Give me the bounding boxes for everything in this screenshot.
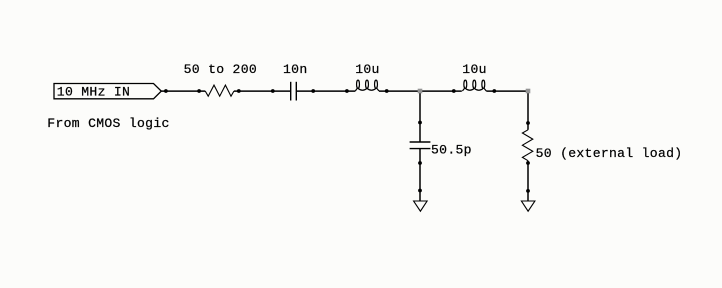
node dot tag output (164, 89, 168, 93)
svg-text:50.5p: 50.5p (431, 143, 472, 158)
node dot L1 pin2 (385, 89, 389, 93)
junction node right (526, 89, 531, 94)
ground symbol right (521, 201, 535, 211)
junction node middle (418, 89, 423, 94)
wire R2 to ground (527, 161, 529, 201)
wire L2 to right node (486, 90, 528, 92)
wire C1 to L1 (296, 90, 355, 92)
node dot C2 pin2 (418, 161, 422, 165)
svg-text:10u: 10u (355, 62, 379, 77)
inductor L2 10u (462, 80, 486, 91)
resistor R1 50 to 200 (205, 85, 234, 96)
node dot C1 pin2 (311, 89, 315, 93)
wire C2 to ground (419, 149, 421, 201)
inductor L1 10u (355, 80, 379, 91)
wire node to R2 (527, 91, 529, 130)
node dot before middle ground (418, 189, 422, 193)
svg-text:50 to 200: 50 to 200 (184, 62, 257, 77)
node dot L2 pin1 (452, 89, 456, 93)
svg-text:50 (external load): 50 (external load) (536, 146, 683, 161)
input port tag 10 MHz IN (54, 84, 161, 99)
node dot C1 pin1 (271, 89, 275, 93)
ground symbol middle (414, 201, 428, 211)
svg-text:10 MHz IN: 10 MHz IN (57, 85, 130, 100)
wire L1 to L2 through node (379, 90, 462, 92)
node dot L1 pin1 (345, 89, 349, 93)
svg-text:From CMOS logic: From CMOS logic (47, 116, 169, 131)
svg-text:10u: 10u (462, 62, 486, 77)
svg-text:10n: 10n (283, 62, 307, 77)
node dot C2 pin1 (418, 121, 422, 125)
capacitor C1 10n (290, 82, 292, 101)
node dot R2 pin2 (526, 161, 530, 165)
node dot R2 pin1 (526, 121, 530, 125)
node dot R1 pin2 (237, 89, 241, 93)
node dot before right ground (526, 189, 530, 193)
wire R1 to C1 (234, 90, 290, 92)
wire tag to R1 (161, 90, 205, 92)
capacitor C2 50.5p (410, 141, 431, 143)
node dot R1 pin1 (197, 89, 201, 93)
resistor R2 50 external load (522, 130, 532, 161)
wire node to C2 (419, 91, 421, 142)
node dot L2 pin2 (492, 89, 496, 93)
